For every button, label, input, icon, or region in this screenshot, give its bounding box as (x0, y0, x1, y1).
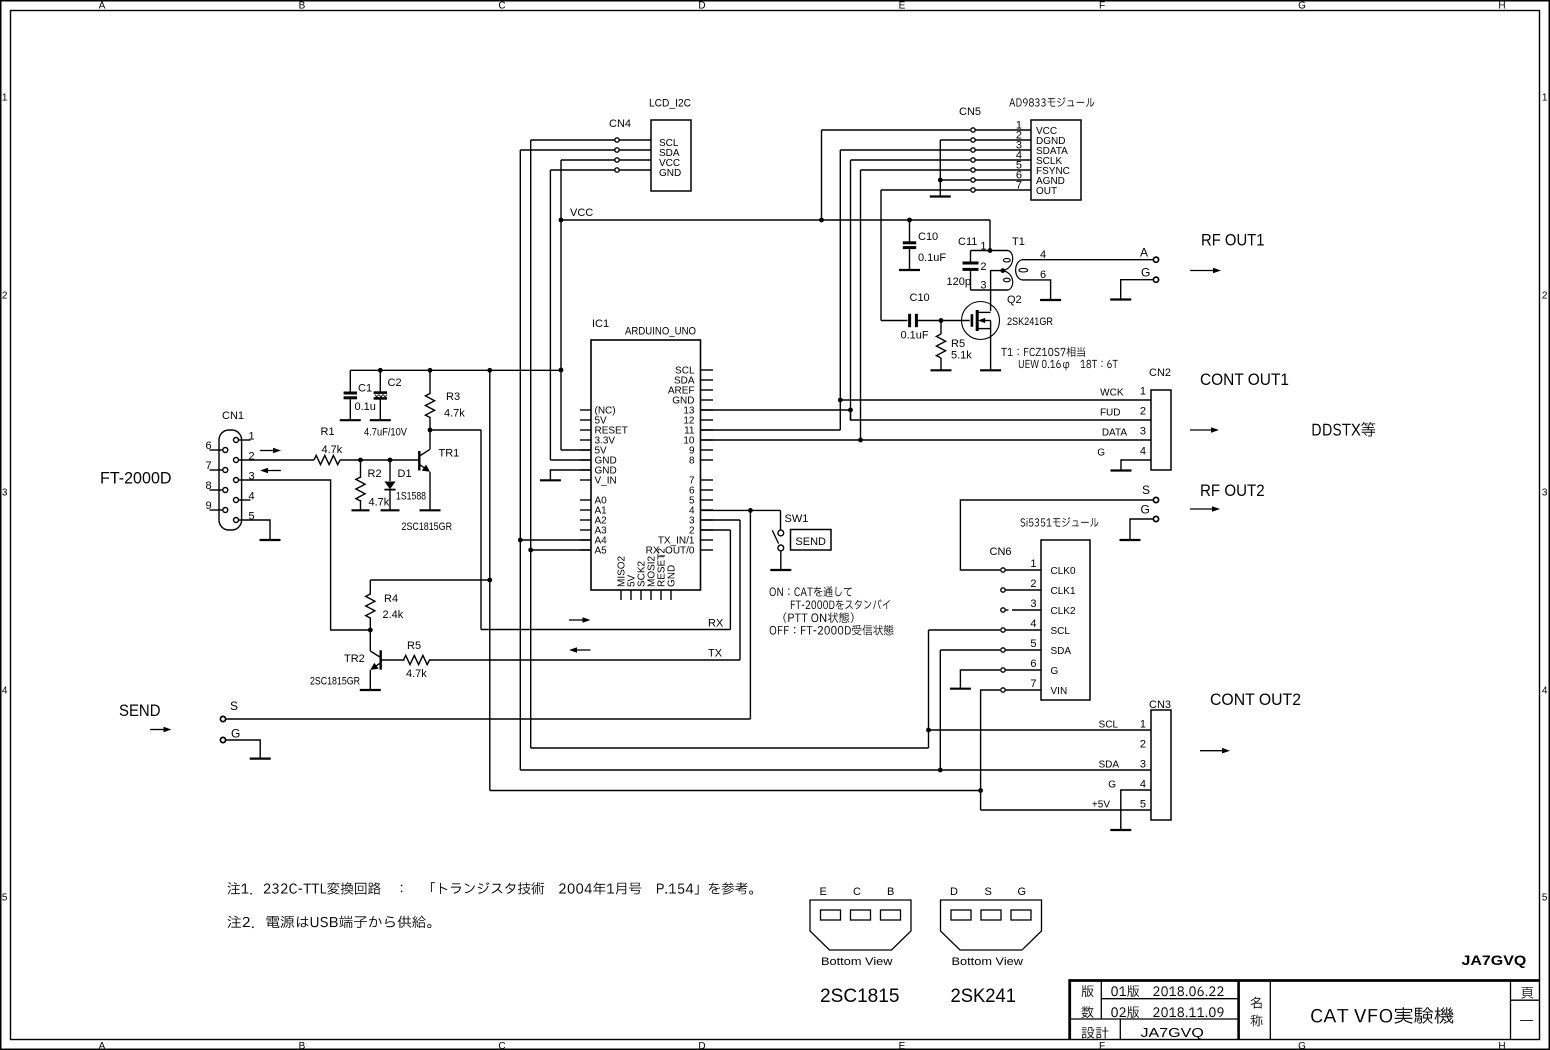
wire Arduino pin4 to SW1 and SEND S line (226, 508, 781, 719)
wire SDATA from CN5 to Arduino pin11 / WCK node (838, 150, 970, 402)
ground at C10 (899, 269, 920, 271)
IC1 right side pin labels (646, 365, 695, 556)
resistor R5 5.1k at Q2 gate (936, 318, 972, 369)
svg-text:VIN: VIN (1051, 686, 1068, 697)
diode D1 1S1588 (384, 460, 426, 510)
wire OUT from CN5 to C10 coupling cap (881, 190, 970, 321)
title block (1070, 979, 1540, 1039)
svg-text:Bottom View: Bottom View (952, 956, 1024, 968)
svg-text:GND: GND (659, 168, 681, 179)
terminal RF OUT2 G (1130, 503, 1159, 540)
ground at CN6 G (950, 688, 971, 690)
svg-text:4.7k: 4.7k (369, 497, 390, 509)
svg-text:R1: R1 (321, 426, 335, 438)
connector CN2 (1097, 367, 1171, 470)
svg-text:3: 3 (1140, 426, 1146, 438)
capacitor C10 decoupling 0.1uF (903, 220, 947, 270)
svg-text:1: 1 (1542, 93, 1548, 104)
svg-text:E: E (899, 1, 906, 12)
wire FSYNC from CN5 to Arduino pin10 / DATA node (858, 170, 970, 442)
svg-text:5: 5 (1140, 798, 1146, 810)
svg-text:C10: C10 (910, 292, 930, 304)
arrow RF OUT2 (1190, 508, 1213, 510)
svg-text:5: 5 (2, 893, 8, 904)
ground at RF OUT1 G (1110, 298, 1131, 300)
svg-text:A: A (99, 1, 106, 12)
arrow TX data toward radio (260, 450, 274, 452)
svg-text:SCL: SCL (1051, 626, 1071, 637)
title block page cell (1520, 987, 1533, 1027)
wire CN5 pin stubs (973, 130, 1031, 190)
svg-text:TR1: TR1 (439, 448, 460, 460)
svg-text:4: 4 (1140, 778, 1146, 790)
svg-text:S: S (230, 699, 238, 713)
wire CN6 G to ground (960, 670, 1000, 688)
svg-text:D: D (698, 1041, 705, 1050)
svg-text:CN5: CN5 (959, 106, 981, 118)
wire CN1 pin5 to ground (239, 520, 271, 539)
svg-text:R5: R5 (407, 640, 421, 652)
ground at TR1 emitter (420, 509, 441, 511)
svg-text:1: 1 (980, 241, 986, 253)
terminal SEND S (220, 699, 238, 722)
op-amp U1 equivalent: IC1 ARDUINO_UNO body (591, 318, 701, 590)
ground at C2 (370, 419, 391, 421)
svg-text:1: 1 (1030, 558, 1036, 570)
ground at SW1 (770, 569, 791, 571)
svg-text:H: H (1498, 1, 1505, 12)
svg-text:G: G (1141, 266, 1150, 280)
svg-text:D: D (950, 886, 958, 898)
wire SCLK from CN5 to Arduino pin13 / FUD node (848, 160, 970, 420)
svg-text:D: D (698, 1, 705, 12)
svg-text:R5: R5 (951, 338, 965, 350)
label box SEND at SW1 (791, 530, 832, 551)
transistor Q2 2SK241GR (941, 294, 1053, 370)
capacitor C11 120p (947, 236, 979, 290)
wire T1 pin2 tap to Q2 drain (991, 268, 1006, 311)
capacitor C1 0.1u (344, 370, 376, 419)
svg-text:2: 2 (1030, 578, 1036, 590)
wire RX line TR1 collector to Arduino pin2 (481, 430, 730, 630)
svg-text:B: B (299, 1, 306, 12)
svg-text:2SK241: 2SK241 (951, 986, 1017, 1007)
svg-text:3: 3 (1030, 598, 1036, 610)
terminal RF OUT2 S (1142, 483, 1159, 503)
wire CN6 pin stubs (1003, 570, 1041, 690)
arrow SEND (150, 729, 165, 731)
package drawing 2SK241 bottom view (941, 886, 1042, 1007)
svg-text:4: 4 (1030, 618, 1036, 630)
wire CN5 DGND/AGND to ground (938, 140, 970, 196)
svg-text:A5: A5 (595, 545, 608, 556)
wire CN3 G pin4 to ground (1121, 790, 1151, 829)
wire CN1 pin3 to TR2 collector (239, 480, 371, 630)
wire 5V rail (350, 368, 561, 373)
transistor TR1 2SC1815GR (402, 430, 460, 533)
svg-text:SCL: SCL (1099, 719, 1119, 730)
wire CN3 +5V pin5 (981, 809, 1151, 811)
svg-text:CLK0: CLK0 (1051, 566, 1076, 577)
resistor R4 2.4k (366, 580, 490, 630)
wire CN4 pin stubs (617, 140, 651, 170)
wire CN3 SCL pin1 (929, 729, 1152, 731)
svg-text:S: S (985, 886, 992, 898)
IC1 left pin stubs (580, 410, 591, 550)
svg-text:D1: D1 (398, 468, 412, 480)
svg-text:JA7GVQ: JA7GVQ (1462, 953, 1527, 968)
ground at CN1 pin5 (260, 539, 281, 541)
svg-text:WCK: WCK (1100, 388, 1124, 399)
arrow CONT OUT2 (1200, 750, 1223, 752)
ground at C1 (340, 419, 361, 421)
IC1 right pin stubs (701, 370, 714, 550)
svg-text:G: G (1141, 503, 1150, 517)
svg-text:2: 2 (2, 291, 8, 302)
ground at IC1 GND pin (540, 470, 591, 480)
svg-text:0.1uF: 0.1uF (901, 330, 929, 342)
transformer T1 (980, 236, 1046, 292)
wire VCC distribution to R4 and VIN/+5V (487, 370, 983, 793)
svg-text:4: 4 (1140, 446, 1146, 458)
svg-text:LCD_I2C: LCD_I2C (649, 98, 691, 110)
label T1 winding note (1001, 347, 1118, 371)
terminal RF OUT1 G (1121, 266, 1159, 300)
resistor R1 4.7k (314, 426, 343, 465)
svg-text:V_IN: V_IN (595, 475, 617, 486)
svg-text:C: C (498, 1, 505, 12)
CN4 pin circles (615, 138, 619, 172)
svg-text:CN6: CN6 (990, 546, 1012, 558)
svg-text:CLK1: CLK1 (1051, 586, 1076, 597)
svg-text:C1: C1 (358, 383, 372, 395)
wire FUD net to CN2 pin2 (851, 410, 1152, 420)
ground at SEND G (250, 757, 271, 759)
svg-text:ARDUINO_UNO: ARDUINO_UNO (625, 326, 696, 338)
CN6 pin circles (1001, 568, 1005, 692)
transistor TR2 2SC1815GR (310, 628, 381, 690)
connector CN1 DB9 (206, 410, 255, 530)
connector CN3 (1092, 699, 1171, 820)
wire CN6 SDA from SDA net (940, 649, 1000, 651)
svg-text:6: 6 (1030, 658, 1036, 670)
svg-text:5.1k: 5.1k (951, 350, 972, 362)
svg-text:3: 3 (980, 280, 986, 292)
wire CN1 pin2 to R1 (239, 459, 315, 461)
resistor R5 4.7k in TX line (381, 640, 740, 680)
wire Arduino pin11 to SDATA/WCK node (701, 400, 841, 430)
svg-text:0.1uF: 0.1uF (918, 252, 946, 264)
arrow RX data from radio (267, 470, 281, 472)
svg-text:—: — (1520, 1012, 1533, 1027)
wire VCC net horizontal run to AD9833 and T1 (561, 218, 990, 251)
wire CN4 GND to Arduino GND (550, 170, 617, 460)
IC1 left side pin labels (595, 405, 628, 556)
svg-text:CN4: CN4 (609, 118, 631, 130)
svg-text:H: H (1498, 1041, 1505, 1050)
note 1 text (228, 882, 754, 895)
svg-text:C: C (498, 1041, 505, 1050)
svg-text:Bottom View: Bottom View (821, 956, 893, 968)
svg-text:FUD: FUD (1100, 408, 1121, 419)
IC1 bottom pin labels MISO2 5V SCK2 MOSI2 RESET2 GND (617, 548, 678, 587)
svg-text:C11: C11 (958, 236, 977, 248)
svg-text:A: A (99, 1041, 106, 1050)
svg-text:4.7k: 4.7k (444, 408, 465, 420)
wire TX line to Arduino pin3 (701, 520, 741, 660)
capacitor C2 4.7uF/10V electrolytic (364, 370, 408, 438)
svg-text:7: 7 (1030, 678, 1036, 690)
arrow CONT OUT1 (1190, 429, 1212, 431)
svg-text:JA7GVQ: JA7GVQ (1141, 1025, 1204, 1040)
svg-text:0.1u: 0.1u (355, 401, 376, 413)
title block revision texts (1082, 985, 1224, 1040)
wire CN5 VCC pin1 to VCC net (822, 130, 971, 220)
svg-text:R3: R3 (446, 391, 460, 403)
svg-text:B: B (887, 886, 894, 898)
wire T1 pin4 to RF OUT1 A (1022, 259, 1153, 261)
wire Arduino pin13 to SCLK/FUD node (701, 409, 851, 411)
wire CN1 pin1 stub (239, 439, 251, 441)
svg-text:DATA: DATA (1102, 428, 1128, 439)
wire T1 pin3 line (971, 289, 1009, 291)
svg-text:CONT OUT2: CONT OUT2 (1210, 690, 1301, 709)
CN5 pin circles (971, 128, 975, 192)
svg-text:VCC: VCC (570, 207, 593, 219)
svg-text:C10: C10 (918, 231, 938, 243)
svg-text:G: G (1051, 666, 1059, 677)
node VCC net label (570, 207, 593, 219)
svg-text:CONT OUT1: CONT OUT1 (1200, 370, 1289, 389)
ground at RF OUT2 G (1120, 539, 1141, 541)
svg-text:TR2: TR2 (344, 653, 365, 665)
svg-text:C2: C2 (388, 377, 402, 389)
wire CN2 G pin4 to ground (1121, 460, 1151, 470)
svg-text:4.7uF/10V: 4.7uF/10V (364, 427, 408, 439)
connector CN5 AD9833 module (959, 97, 1094, 200)
svg-text:3: 3 (1542, 488, 1548, 499)
svg-text:GND: GND (667, 565, 678, 587)
arrow RF OUT1 (1190, 270, 1214, 272)
wire WCK net to CN2 pin1 (840, 399, 1151, 401)
wire TR1 collector node to RX vertical (428, 428, 481, 433)
label SW1 operation note (770, 587, 894, 636)
svg-text:G: G (1298, 1041, 1306, 1050)
svg-text:3: 3 (2, 488, 8, 499)
svg-text:S: S (1142, 483, 1150, 497)
svg-text:G: G (231, 727, 240, 741)
svg-text:G: G (1108, 779, 1116, 790)
svg-text:C: C (853, 886, 861, 898)
svg-text:CN2: CN2 (1149, 367, 1171, 379)
svg-text:SW1: SW1 (785, 513, 809, 525)
svg-text:R4: R4 (384, 593, 398, 605)
svg-text:T1: T1 (1012, 236, 1025, 248)
svg-text:1: 1 (1140, 718, 1146, 730)
ground at Q2 source (980, 369, 1001, 371)
svg-text:E: E (899, 1041, 906, 1050)
wire T1 pin6 to ground (1022, 280, 1051, 300)
svg-text:CLK2: CLK2 (1051, 606, 1076, 617)
svg-text:2SC1815: 2SC1815 (820, 986, 900, 1007)
wire R1 to TR1 base node (340, 458, 418, 463)
resistor R2 4.7k (356, 460, 390, 510)
note 2 text (228, 916, 432, 929)
title block name cell (1251, 997, 1454, 1027)
terminal SEND G (220, 727, 260, 759)
svg-text:4: 4 (1542, 686, 1548, 697)
svg-text:B: B (299, 1041, 306, 1050)
wire Arduino pin10 / DATA net to CN2 pin3 (701, 439, 1152, 441)
svg-text:2.4k: 2.4k (383, 609, 404, 621)
ground at D1 (381, 509, 400, 511)
wire T1 pin1 line (971, 248, 1009, 253)
svg-text:2: 2 (1140, 738, 1146, 750)
svg-text:G: G (1097, 448, 1105, 459)
svg-text:R2: R2 (368, 468, 382, 480)
ground at CN3 pin4 (1110, 829, 1131, 831)
svg-text:8: 8 (689, 455, 695, 466)
svg-text:E: E (820, 886, 827, 898)
svg-text:2: 2 (980, 261, 986, 273)
wire SDA net from CN4 to Arduino A4 and Si5351/CN3 (518, 150, 1151, 772)
wire CN4 VCC to 5V rail and Arduino 5V (559, 160, 617, 450)
switch SW1 (772, 513, 808, 570)
svg-text:RX_OUT/0: RX_OUT/0 (646, 545, 695, 556)
svg-text:OUT: OUT (1036, 186, 1057, 197)
svg-text:5: 5 (1030, 638, 1036, 650)
svg-text:4: 4 (2, 686, 8, 697)
svg-text:2SC1815GR: 2SC1815GR (402, 521, 453, 533)
svg-text:CN3: CN3 (1149, 699, 1171, 711)
svg-text:4.7k: 4.7k (322, 444, 343, 456)
svg-text:2: 2 (1542, 291, 1548, 302)
wire CLK0 to RF OUT2 S (960, 500, 1153, 570)
connector CN6 Si5351 module (990, 517, 1099, 700)
svg-text:F: F (1099, 1, 1105, 12)
arrow RX direction (569, 619, 584, 621)
svg-text:5: 5 (1542, 893, 1548, 904)
svg-text:1: 1 (1140, 386, 1146, 398)
capacitor C10 coupling 0.1uF at Q2 gate (901, 292, 942, 342)
svg-text:2SK241GR: 2SK241GR (1007, 316, 1053, 328)
svg-text:SDA: SDA (1051, 646, 1072, 657)
svg-text:3: 3 (1140, 758, 1146, 770)
svg-text:RF OUT1: RF OUT1 (1201, 231, 1265, 250)
ground at T1 pin6 (1040, 299, 1061, 301)
arrow TX direction (576, 649, 591, 651)
wire CN1 left pin stubs 6-9 (210, 450, 223, 510)
svg-text:SDA: SDA (1098, 759, 1119, 770)
ground at CN5 DGND (930, 195, 951, 197)
svg-text:F: F (1099, 1041, 1105, 1050)
svg-text:RF OUT2: RF OUT2 (1200, 481, 1265, 500)
svg-text:CN1: CN1 (222, 410, 244, 422)
resistor R3 4.7k (425, 370, 465, 430)
wire SCL net from CN4 to Arduino A5 and Si5351/CN3 (528, 140, 931, 748)
connector CN4 LCD_I2C (609, 98, 691, 192)
svg-text:4.7k: 4.7k (406, 668, 427, 680)
svg-text:G: G (1298, 1, 1306, 12)
ground at R5 (931, 369, 952, 371)
svg-text:120p: 120p (947, 276, 971, 288)
svg-text:G: G (1018, 886, 1027, 898)
package drawing 2SC1815 bottom view (810, 886, 911, 1007)
svg-text:1S1588: 1S1588 (396, 491, 426, 503)
svg-text:FT-2000D: FT-2000D (100, 469, 172, 488)
label DDSTX (1313, 422, 1376, 437)
ground at CN2 pin4 (1111, 469, 1132, 471)
svg-text:TX: TX (708, 648, 723, 660)
ground at R2 (352, 509, 370, 511)
wire CN1 pin4 stub (239, 499, 251, 501)
svg-text:1: 1 (2, 93, 8, 104)
svg-text:SEND: SEND (795, 536, 826, 548)
svg-text:2SC1815GR: 2SC1815GR (310, 676, 360, 688)
wire CN6 SCL from SCL net (929, 629, 1001, 631)
wire CN6 VIN from +5V (981, 690, 1000, 810)
IC1 bottom pin stubs (621, 590, 671, 600)
svg-text:RX: RX (708, 618, 724, 630)
svg-text:Q2: Q2 (1007, 294, 1022, 306)
svg-text:2: 2 (1140, 406, 1146, 418)
svg-text:A: A (1140, 246, 1148, 260)
svg-text:+5V: +5V (1092, 799, 1110, 810)
svg-text:IC1: IC1 (592, 318, 609, 330)
ground at TR2 emitter (360, 689, 381, 691)
svg-text:SEND: SEND (119, 701, 161, 720)
terminal RF OUT1 A (1140, 246, 1159, 263)
